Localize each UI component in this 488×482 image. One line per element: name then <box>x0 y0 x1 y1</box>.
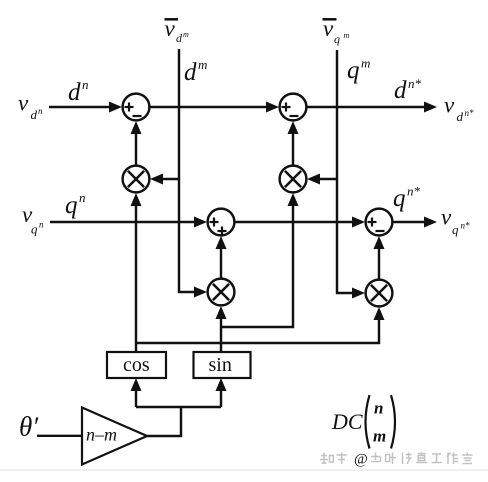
arrowhead into M4 bottom <box>374 307 385 320</box>
summer S4 <box>366 209 393 236</box>
svg-text:d: d <box>457 109 464 124</box>
svg-text:n: n <box>39 220 44 230</box>
arrowhead into M1 bottom <box>131 193 142 206</box>
arrowhead into S2 bottom <box>288 121 299 134</box>
svg-text:q: q <box>347 57 360 84</box>
arrowhead into M1 right <box>150 174 163 185</box>
svg-text:m: m <box>344 31 350 40</box>
multiplier M3 <box>208 279 235 306</box>
svg-text:d: d <box>176 31 183 45</box>
multiplier M4 <box>366 280 393 307</box>
label v_qn <box>22 202 44 237</box>
label q^n <box>65 190 86 219</box>
wire S3 to S4 <box>235 221 355 223</box>
wire cos input <box>135 389 137 407</box>
svg-text:d: d <box>68 79 81 106</box>
svg-text:@: @ <box>354 452 368 468</box>
label d^n* <box>394 76 422 104</box>
wire V1 to M1 branch <box>161 178 179 180</box>
wire theta input <box>37 435 82 437</box>
wire sin branch to M2 bottom <box>221 204 293 327</box>
label q^n* <box>393 184 421 213</box>
gain triangle n-m <box>82 408 147 465</box>
label vbar_dm <box>165 16 190 45</box>
svg-text:v: v <box>323 16 334 41</box>
svg-text:m: m <box>198 57 207 72</box>
multiplier M1 <box>123 166 150 193</box>
svg-text:n: n <box>374 399 383 418</box>
svg-text:n: n <box>79 190 86 205</box>
box cos <box>107 352 166 378</box>
svg-text:cos: cos <box>123 354 150 376</box>
arrowhead into S4 left <box>352 217 365 228</box>
arrowhead into S3 left <box>194 217 207 228</box>
wire M4 output up <box>378 247 380 279</box>
svg-text:d: d <box>394 77 407 104</box>
svg-text:m: m <box>373 427 386 446</box>
label v_dn <box>18 91 43 123</box>
svg-text:n*: n* <box>408 76 422 91</box>
label q^m <box>347 56 370 85</box>
summer S3 <box>208 209 235 236</box>
svg-text:n: n <box>82 77 89 92</box>
wire v_qn input <box>50 221 197 223</box>
arrowhead into M3 bottom <box>216 306 227 319</box>
multiplier M2 <box>280 166 307 193</box>
arrowhead into cos bottom <box>131 378 142 391</box>
svg-text:n*: n* <box>465 108 475 118</box>
arrowhead into S2 left <box>266 102 279 113</box>
label DC(n m) <box>331 395 395 449</box>
wire riser from triangle apex <box>147 407 181 436</box>
signs S1 plus minus <box>125 103 385 236</box>
separator line bottom <box>0 469 488 471</box>
svg-text:n*: n* <box>461 221 471 231</box>
wire distribution tee from triangle <box>136 406 221 408</box>
arrowhead output d <box>424 102 437 113</box>
X cross M1 <box>128 171 387 301</box>
arrowhead into M2 bottom <box>288 193 299 206</box>
svg-text:θ′: θ′ <box>19 412 39 442</box>
svg-text:v: v <box>444 93 455 118</box>
wire sin input <box>220 389 222 407</box>
svg-text:q: q <box>334 32 340 46</box>
arrowhead into M2 right <box>307 174 320 185</box>
svg-text:q: q <box>65 192 78 219</box>
svg-text:q: q <box>393 185 406 212</box>
wire vbar_dm vertical V1 <box>179 49 197 292</box>
svg-text:n*: n* <box>407 184 421 199</box>
arrowhead into S4 bottom <box>374 236 385 249</box>
X cross M2 <box>285 171 301 187</box>
arrowhead into S1 bottom <box>131 121 142 134</box>
svg-text:n–m: n–m <box>86 425 117 445</box>
arrowhead into S1 left <box>109 102 122 113</box>
wire S1 to S2 <box>150 106 269 108</box>
arrowhead into M3 left <box>194 287 207 298</box>
svg-text:v: v <box>441 205 452 230</box>
svg-text:q: q <box>452 222 459 237</box>
summer S2 <box>280 94 307 121</box>
X cross M3 <box>213 284 229 300</box>
label d^n <box>68 77 89 106</box>
label vbar_qm <box>323 16 350 46</box>
wire vbar_qm vertical V2 <box>337 50 355 293</box>
svg-text:m: m <box>361 56 370 71</box>
wire M1 output up <box>135 132 137 165</box>
wire M3 output up <box>220 247 222 278</box>
label v_dn* <box>444 93 474 125</box>
wire sin output column to M3 <box>220 317 222 352</box>
arrowhead into sin bottom <box>216 378 227 391</box>
svg-text:sin: sin <box>209 354 232 376</box>
wire cos branch to M4 bottom <box>136 318 379 343</box>
arrowhead into M4 left <box>352 288 365 299</box>
watermark zhihu (vector approximation of CJK) <box>320 453 473 465</box>
svg-text:DC: DC <box>331 409 363 434</box>
X cross M4 <box>371 285 387 301</box>
label v_qn* <box>441 205 470 238</box>
arrowhead output q <box>424 217 437 228</box>
wire S4 output q^n* <box>393 221 426 223</box>
signs S4 plus minus <box>368 221 377 223</box>
svg-text:d: d <box>31 107 38 122</box>
svg-text:n: n <box>38 106 43 116</box>
wire M2 output up <box>292 132 294 165</box>
label d^m <box>184 57 207 86</box>
svg-text:v: v <box>165 16 176 41</box>
arrowhead into S3 bottom <box>216 236 227 249</box>
box sin <box>194 352 251 378</box>
signs S3 plus plus <box>210 221 219 223</box>
svg-text:m: m <box>183 30 189 39</box>
svg-text:d: d <box>184 59 197 86</box>
wire V2 to M2 branch <box>318 178 337 180</box>
summer S1 <box>123 94 150 121</box>
wire v_dn input <box>49 106 112 108</box>
svg-text:q: q <box>31 222 38 237</box>
signs S2 plus minus <box>282 106 291 108</box>
svg-text:v: v <box>18 91 29 116</box>
wire cos output column to M1 <box>135 204 137 352</box>
wire S2 output d^n* <box>307 106 426 108</box>
